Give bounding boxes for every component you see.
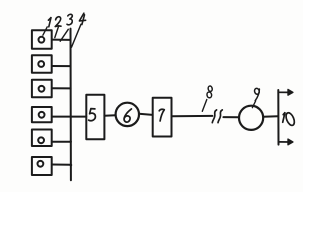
junction of sensor 5 wire with bus [70, 141, 72, 143]
label 4 [79, 13, 85, 24]
label 9 [254, 88, 260, 101]
wire from indicator 6 to block 7 [139, 114, 153, 115]
wire from sensor 1 to bus [52, 39, 70, 41]
indicator 6 (circle) [116, 103, 139, 126]
leader line for label 3 [60, 29, 68, 41]
wire from device 9 to output fork 10 [263, 115, 278, 117]
sensor box 6 [32, 157, 52, 175]
wire from bus to block 5 [71, 116, 86, 118]
junction of sensor 6 wire with bus [70, 164, 73, 167]
output fork 10 : vertical bar [277, 90, 279, 145]
label 10 [283, 112, 296, 127]
line break mark on communication line [212, 110, 216, 123]
block 7 [153, 98, 172, 137]
label 3 [67, 14, 72, 25]
output fork 10 : top arm [278, 91, 289, 93]
wire from block 7 to line break [172, 115, 213, 117]
leader line for label 1 [43, 27, 47, 35]
sensor box 3 [32, 80, 52, 98]
label 8 [206, 86, 212, 99]
digit 7 in block 7 [159, 109, 164, 121]
wire from block 5 to indicator 6 [104, 114, 115, 117]
leader line for label 8 [202, 100, 207, 112]
wire from sensor 6 to bus [52, 164, 71, 166]
device 9 (circle) [239, 106, 263, 130]
label 2 [55, 17, 61, 27]
wire from sensor 5 to bus [52, 141, 71, 143]
bus line (vertical collector) [70, 29, 72, 181]
wire from sensor 4 to bus [52, 116, 70, 118]
digit 5 in block 5 [89, 109, 96, 121]
leader line for label 2 [55, 26, 59, 38]
output fork 10 : bottom arrowhead [288, 139, 293, 145]
wire from sensor 2 to bus [52, 65, 70, 67]
block 5 [86, 95, 104, 140]
sensor box 5 [32, 130, 52, 147]
label 1 [48, 18, 51, 27]
leader line for label 9 [252, 101, 255, 108]
leader line for label 4 [72, 24, 82, 47]
sensor box 1 [32, 30, 52, 48]
digit 6 in indicator 6 [124, 109, 131, 122]
output fork 10 : top arrowhead [288, 90, 293, 96]
sensor box 4 [32, 107, 52, 122]
wire from line break to device 9 [223, 116, 239, 118]
wire from sensor 3 to bus [52, 87, 71, 89]
output fork 10 : bottom arm [278, 141, 288, 143]
sensor box 2 [32, 55, 52, 72]
